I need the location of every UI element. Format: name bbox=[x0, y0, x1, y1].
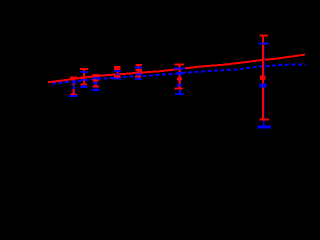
point P7 blue marker bbox=[177, 72, 182, 75]
red fit line bbox=[48, 55, 305, 83]
point P2 blue lower blob bbox=[82, 85, 84, 86]
point P5 red error bar bbox=[135, 65, 142, 76]
point P3 blue lower blob bbox=[93, 82, 98, 85]
point P5 blue caps bbox=[135, 68, 143, 79]
point P8 blue caps bbox=[258, 43, 272, 127]
point P2 red error bar bbox=[80, 69, 88, 85]
point P7 red error bar bbox=[175, 64, 184, 88]
point P8 red error bar bbox=[260, 36, 270, 120]
point P2 blue vertical bbox=[83, 72, 85, 87]
point P3 red error bar bbox=[92, 74, 99, 86]
point P1 blue lower blob bbox=[72, 86, 75, 89]
point P7 red marker bbox=[177, 78, 182, 81]
point P4 blue lower blob bbox=[115, 74, 119, 76]
point P7 blue vertical bbox=[179, 69, 181, 95]
point P4 blue vertical bbox=[117, 70, 119, 78]
point P2 blue marker bbox=[81, 79, 87, 81]
point P3 blue vertical bbox=[95, 78, 97, 90]
point P1 blue vertical bbox=[73, 83, 75, 96]
point P4 red marker bbox=[114, 68, 121, 70]
point P5 blue vertical bbox=[138, 68, 140, 79]
point P8 blue vertical bbox=[263, 43, 265, 127]
point P7 blue lower blob bbox=[177, 84, 181, 87]
point P1 red error bar bbox=[70, 78, 77, 94]
point P4 blue cap bbox=[113, 77, 121, 79]
blue dashed fit line bbox=[52, 64, 306, 83]
point P5 blue marker bbox=[136, 73, 142, 75]
point P1 red marker bbox=[70, 76, 78, 79]
point P5 red marker bbox=[136, 69, 142, 71]
point P4 blue marker bbox=[114, 70, 121, 72]
point P2 red marker bbox=[81, 77, 88, 79]
point P3 blue marker bbox=[93, 77, 99, 79]
point P3 red marker bbox=[93, 74, 99, 77]
point P8 blue marker bbox=[260, 83, 267, 87]
point P7 blue caps bbox=[174, 69, 185, 95]
point P3 blue cap bbox=[91, 89, 99, 91]
point P8 red marker bbox=[260, 76, 265, 81]
point P4 red error bar bbox=[114, 67, 121, 77]
point P2 blue caps bbox=[80, 72, 88, 87]
point P1 blue marker bbox=[72, 80, 77, 83]
blue error bar verticals (under red) bbox=[74, 43, 264, 127]
point P1 blue cap bbox=[69, 95, 78, 97]
